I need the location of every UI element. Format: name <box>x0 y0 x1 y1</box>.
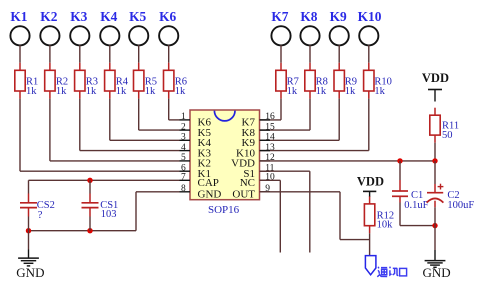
connector J1 communication port <box>365 256 376 275</box>
svg-text:CAP: CAP <box>198 177 219 189</box>
node R11/C2 junction <box>432 158 437 163</box>
svg-text:K3: K3 <box>70 9 87 24</box>
resistor R12 <box>364 196 394 233</box>
svg-text:15: 15 <box>265 122 275 132</box>
svg-text:50: 50 <box>442 130 453 141</box>
svg-text:1k: 1k <box>345 86 356 97</box>
svg-text:5: 5 <box>181 153 186 163</box>
wire K2 to resistor <box>49 45 51 63</box>
svg-text:7: 7 <box>181 173 186 183</box>
svg-text:GND: GND <box>423 265 451 280</box>
pin 3 stub <box>180 139 191 141</box>
wire K8 net to pin 15 <box>260 99 311 131</box>
key switch K3 <box>70 9 89 45</box>
svg-text:12: 12 <box>265 153 275 163</box>
pin 1 stub <box>180 119 191 121</box>
svg-text:1k: 1k <box>26 86 37 97</box>
wire S1 net pin 11 <box>260 171 310 252</box>
wire K9 net to pin 14 <box>260 99 340 141</box>
capacitor CS1 <box>82 180 119 230</box>
svg-text:100uF: 100uF <box>447 200 474 211</box>
wire K10 net to pin 13 <box>260 99 369 151</box>
key switch K1 <box>10 9 29 45</box>
capacitor C1 <box>392 161 429 226</box>
svg-text:K6: K6 <box>159 9 176 24</box>
power VDD (above R12) <box>357 174 384 197</box>
node CS2 bottom junction <box>26 228 31 233</box>
resistor R3 <box>75 63 98 99</box>
wire CAP rail to pin 7 <box>29 179 180 181</box>
svg-text:1k: 1k <box>145 86 156 97</box>
resistor R10 <box>364 63 392 99</box>
key switch K8 <box>300 9 319 45</box>
resistor R8 <box>305 63 328 99</box>
svg-text:1k: 1k <box>86 86 97 97</box>
svg-text:K1: K1 <box>10 9 27 24</box>
pin 13 stub <box>260 150 271 152</box>
wire K3 to resistor <box>79 45 81 63</box>
resistor R1 <box>15 63 38 99</box>
svg-text:2: 2 <box>181 122 186 132</box>
svg-text:3: 3 <box>181 133 186 143</box>
wire K3 net to pin 4 <box>80 99 180 151</box>
op IC U1 SOP16 body <box>190 110 260 200</box>
pin 11 stub <box>260 170 271 172</box>
svg-text:K4: K4 <box>100 9 117 24</box>
pin 4 stub <box>180 150 191 152</box>
wire K8 to resistor <box>309 45 311 63</box>
svg-text:1: 1 <box>181 112 186 122</box>
pin 6 stub <box>180 170 191 172</box>
svg-text:SOP16: SOP16 <box>208 204 240 216</box>
key switch K10 <box>358 9 382 45</box>
svg-text:0.1uF: 0.1uF <box>404 200 428 211</box>
ground GND left <box>16 231 44 281</box>
svg-text:13: 13 <box>265 143 275 153</box>
wire K5 to resistor <box>138 45 140 63</box>
svg-text:VDD: VDD <box>357 174 384 188</box>
wire R12 to connector <box>369 233 371 255</box>
svg-text:K10: K10 <box>358 9 382 24</box>
svg-text:K7: K7 <box>271 9 288 24</box>
wire K2 net to pin 5 <box>50 99 180 161</box>
svg-text:1k: 1k <box>116 86 127 97</box>
pin 8 stub <box>180 191 191 193</box>
wire K4 to resistor <box>109 45 111 63</box>
capacitor C2 <box>427 161 475 226</box>
pin 12 stub <box>260 160 271 162</box>
svg-text:4: 4 <box>181 143 186 153</box>
wire K7 to resistor <box>280 45 282 63</box>
svg-text:1k: 1k <box>175 86 186 97</box>
key switch K2 <box>40 9 59 45</box>
key switch K4 <box>100 9 119 45</box>
svg-text:1k: 1k <box>374 86 385 97</box>
wire K6 to resistor <box>168 45 170 63</box>
pin 9 stub <box>260 191 271 193</box>
resistor R11 <box>430 108 459 143</box>
pin 2 stub <box>180 129 191 131</box>
svg-text:?: ? <box>38 210 43 221</box>
wire R11 to VDD rail node <box>434 143 436 161</box>
ground GND right <box>423 226 451 280</box>
key switch K6 <box>159 9 178 45</box>
capacitor CS2 <box>20 180 55 230</box>
wire K5 net to pin 2 <box>139 99 180 131</box>
wire K1 to resistor <box>19 45 21 63</box>
svg-text:1k: 1k <box>56 86 67 97</box>
wire K7 net to pin 16 <box>260 99 282 120</box>
key switch K9 <box>330 9 349 45</box>
wire K10 to resistor <box>368 45 370 63</box>
svg-text:8: 8 <box>181 184 186 194</box>
svg-text:14: 14 <box>265 133 275 143</box>
svg-text:K9: K9 <box>330 9 347 24</box>
resistor R4 <box>105 63 129 99</box>
resistor R5 <box>134 63 157 99</box>
wire GND rail to pin 8 <box>29 192 180 231</box>
IC notch <box>214 111 235 121</box>
svg-text:K2: K2 <box>40 9 57 24</box>
wire VDD net pin 12 rail <box>260 160 436 162</box>
svg-text:GND: GND <box>16 265 44 280</box>
power VDD (top right) <box>422 71 449 101</box>
svg-text:K5: K5 <box>129 9 146 24</box>
pin 14 stub <box>260 139 271 141</box>
svg-text:1k: 1k <box>287 86 298 97</box>
resistor R6 <box>164 63 187 99</box>
svg-text:OUT: OUT <box>232 189 255 201</box>
pin 16 stub <box>260 119 271 121</box>
wire OUT net pin 9 <box>260 192 370 240</box>
pin 15 stub <box>260 129 271 131</box>
node C1 top junction <box>397 158 402 163</box>
svg-text:1k: 1k <box>316 86 327 97</box>
pin 7 stub <box>180 179 191 181</box>
wire NC net pin 10 <box>260 180 281 252</box>
resistor R9 <box>334 63 357 99</box>
pin 10 stub <box>260 179 271 181</box>
resistor R2 <box>45 63 68 99</box>
svg-text:NC: NC <box>240 177 255 189</box>
svg-text:16: 16 <box>265 112 275 122</box>
svg-text:GND: GND <box>198 189 222 201</box>
wire K9 to resistor <box>338 45 340 63</box>
svg-text:103: 103 <box>101 209 117 220</box>
pin 5 stub <box>180 160 191 162</box>
node CS1 bottom junction <box>87 228 92 233</box>
resistor R7 <box>276 63 299 99</box>
wire K6 net to pin 1 <box>169 99 180 120</box>
connector label tong-xun-kou <box>377 267 406 277</box>
wire C1/C2 bottom rail <box>400 225 435 227</box>
svg-text:VDD: VDD <box>422 71 449 85</box>
svg-text:10k: 10k <box>377 219 394 230</box>
key switch K7 <box>271 9 290 45</box>
node CS1 top junction <box>87 178 92 183</box>
svg-text:K8: K8 <box>300 9 317 24</box>
wire K1 net to pin 6 <box>20 99 180 172</box>
wire K4 net to pin 3 <box>110 99 180 141</box>
key switch K5 <box>129 9 148 45</box>
node C2 bottom junction <box>432 223 437 228</box>
